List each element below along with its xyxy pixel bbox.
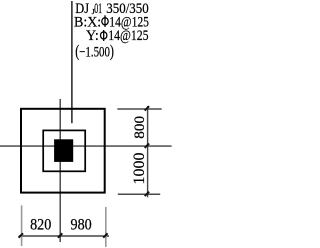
right dim top extension line [117,108,161,110]
svg-text:820: 820 [30,217,51,234]
bottom dim left extension line [21,205,23,246]
tick at right dim middle [145,144,149,148]
leader line from text to column [71,1,73,123]
svg-text:1000: 1000 [131,153,148,185]
svg-text:(−1.500): (−1.500) [75,41,114,60]
tick at bottom dim left [19,233,23,237]
svg-text:Y:: Y: [86,28,99,44]
svg-text:980: 980 [71,217,92,234]
annotation text line 1: DJj01 350/350 [75,1,148,17]
horizontal centerline / axis (also middle extension of right dimension) [0,145,172,147]
vertical centerline / axis (also middle extension of bottom dimension) [59,99,61,242]
outer foundation square [21,109,105,193]
svg-text:14@125: 14@125 [108,28,148,44]
svg-text:800: 800 [131,116,148,139]
bottom dim right extension line [105,207,107,247]
tick at bottom dim right [103,233,107,237]
right dimension line [147,106,149,197]
right dim bottom extension line [118,193,160,195]
tick at bottom dim middle [58,233,62,237]
column (filled) [54,139,73,162]
tick at right dim bottom [145,192,149,196]
annotation text line 2: B:X: phi14@125 [74,14,149,30]
annotation text line 3: Y: phi14@125 [86,28,149,44]
bottom dimension line [19,235,109,237]
tick at right dim top [145,106,149,110]
inner step square [43,130,85,171]
